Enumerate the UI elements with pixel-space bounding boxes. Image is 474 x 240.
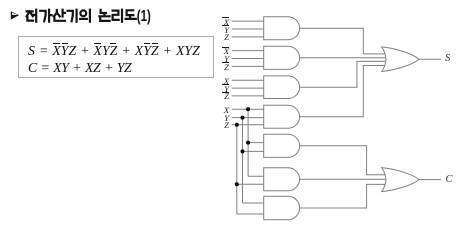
wire gate2 input Xbar: [232, 50, 265, 52]
or-gate OR-C: [382, 168, 419, 192]
label G1 input X-bar: [215, 18, 229, 27]
label G3 input Y-bar: [215, 85, 229, 94]
wire gate7 input Z: [237, 213, 265, 215]
wire gate4 input X: [232, 108, 265, 110]
title glyph 산: [54, 10, 65, 21]
overbar eq S term1 X: [53, 43, 60, 44]
wire gate1 input Ybar: [232, 28, 265, 30]
junction dot Z to gate6: [235, 182, 239, 186]
wire OR-S output: [419, 58, 441, 60]
wire gate2 input Zbar: [232, 65, 265, 67]
wire gate1 output to OR-S: [300, 28, 385, 54]
wire gate3 input Zbar: [232, 95, 265, 97]
wire gate6 input X: [248, 175, 265, 177]
junction dot Y on gate4 line: [241, 116, 245, 120]
overbar pin G3 Z: [222, 92, 228, 93]
label G2 input Y: [215, 55, 229, 64]
title glyph 도: [126, 10, 136, 19]
and-gate G6 (XZ): [264, 168, 300, 191]
wire gate5 input Y: [243, 150, 266, 152]
wire gate2 input Y: [232, 58, 265, 60]
label G4 input Y: [215, 114, 229, 123]
wire gate3 input X: [232, 79, 265, 81]
wire gate4 input Y: [232, 117, 265, 119]
wire gate5 input X: [248, 142, 265, 144]
label G4 input X: [215, 106, 229, 115]
label G3 input X: [215, 77, 229, 86]
wire Y branch vertical: [242, 118, 244, 203]
title bullet arrow: [11, 11, 19, 19]
overbar pin G2 X: [222, 47, 228, 48]
overbar eq S term3 Y: [144, 43, 150, 44]
label output S: [445, 54, 450, 65]
title glyph 가: [40, 10, 51, 22]
overbar pin G1 Y: [222, 25, 228, 26]
junction dot Y to gate5: [241, 149, 245, 153]
title glyph 기: [68, 10, 77, 22]
title glyph 논: [99, 10, 109, 21]
equation box: [19, 37, 214, 78]
wire gate1 input Z: [232, 36, 265, 38]
title glyph 전: [27, 10, 37, 22]
wire gate3 output to OR-S: [300, 61, 385, 87]
label output C: [446, 175, 453, 186]
overbar pin G1 X: [222, 17, 228, 18]
wire OR-C output: [419, 179, 441, 181]
overbar pin G3 Y: [222, 84, 228, 85]
wire gate1 input Xbar: [232, 20, 265, 22]
overbar eq S term2 Z: [110, 43, 116, 44]
svg-text:(1): (1): [137, 8, 151, 25]
and-gate G1 (X'Y'Z): [264, 17, 300, 40]
label G2 input Z-bar: [215, 63, 229, 72]
junction dot X on gate4 line: [246, 107, 250, 111]
equation S: [28, 44, 200, 58]
and-gate G2 (X'YZ'): [264, 46, 300, 69]
overbar eq S term2 X: [94, 43, 101, 44]
wire Z branch vertical: [236, 125, 238, 214]
wire gate4 output to OR-S: [300, 66, 385, 117]
label G4 input Z: [215, 121, 229, 130]
overbar eq S term1 Y: [62, 43, 68, 44]
wire gate6 output to OR-C: [300, 178, 385, 180]
wire gate7 output to OR-C: [300, 184, 385, 208]
wire X branch vertical: [247, 109, 249, 176]
wire gate3 input Ybar: [232, 87, 265, 89]
label G2 input X-bar: [215, 47, 229, 56]
wire gate4 input Z: [232, 124, 265, 126]
or-gate OR-S: [382, 47, 419, 72]
and-gate G5 (XY): [264, 134, 300, 157]
overbar pin G2 Z: [222, 62, 228, 63]
junction dot Z on gate4 line: [235, 123, 239, 127]
label G1 input Y-bar: [215, 26, 229, 35]
label G1 input Z: [215, 33, 229, 42]
junction dot X to gate5: [246, 141, 250, 145]
title glyph 리: [113, 10, 122, 22]
wire gate5 output to OR-C: [300, 146, 385, 175]
wire gate7 input Y: [243, 202, 266, 204]
overbar eq S term3 Z: [152, 43, 158, 44]
and-gate G4 (XYZ): [264, 105, 300, 128]
wire gate6 input Z: [237, 183, 265, 185]
title glyph 의: [80, 10, 90, 22]
and-gate G3 (XY'Z'): [264, 76, 300, 99]
wire gate2 output to OR-S: [300, 57, 385, 59]
and-gate G7 (YZ): [264, 196, 300, 219]
equation C: [28, 61, 131, 75]
label G3 input Z-bar: [215, 92, 229, 101]
